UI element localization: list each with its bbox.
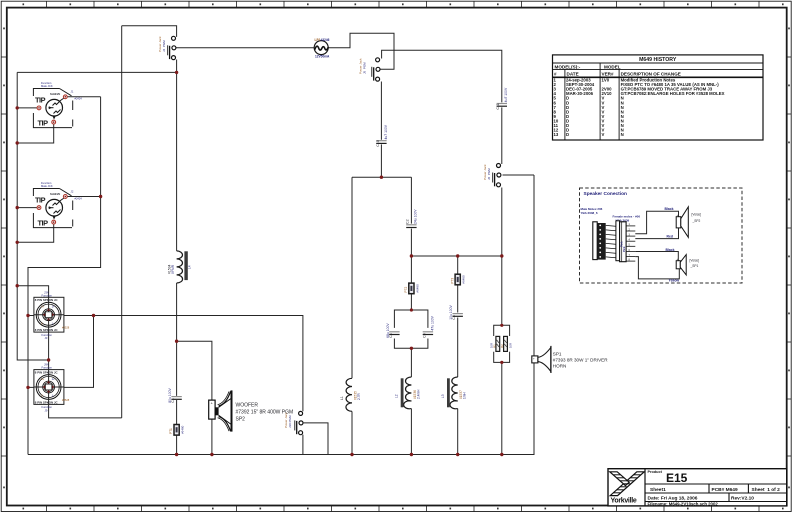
- junction node: [16, 141, 19, 144]
- svg-text:YBA 2638_6: YBA 2638_6: [581, 211, 598, 215]
- capacitor C2: [406, 209, 418, 228]
- svg-text:MODEL(S):-: MODEL(S):-: [555, 65, 581, 70]
- wire cap pair box C4 C5: [394, 310, 428, 328]
- svg-text:Function: Function: [42, 366, 53, 370]
- svg-text:Yorkville: Yorkville: [611, 498, 637, 505]
- junction node: [380, 176, 383, 179]
- wire crossover top rail: [352, 176, 411, 178]
- wire R box bottom: [494, 352, 510, 363]
- wire PT1 to bottom bus: [176, 433, 178, 455]
- svg-text:10R: 10R: [509, 343, 513, 348]
- svg-text:J1: J1: [71, 90, 74, 94]
- wire J5 top stub: [382, 50, 502, 102]
- svg-text:TIP: TIP: [38, 119, 49, 128]
- svg-text:#2424: #2424: [75, 197, 83, 201]
- wire cap pair box bottom: [394, 339, 428, 349]
- wire cap box to L2: [410, 348, 412, 377]
- svg-text:[Voice]: [Voice]: [690, 258, 700, 262]
- junction node: [500, 361, 503, 364]
- TIP jack J1: [33, 81, 82, 127]
- junction node: [16, 284, 19, 287]
- wire woofer bottom to bus: [211, 420, 213, 455]
- svg-text:Product: Product: [648, 470, 663, 474]
- lamp LP1: [314, 38, 330, 59]
- wire J2 tip pin to vertical x100.6: [67, 196, 101, 198]
- svg-text:C11: C11: [496, 103, 500, 109]
- svg-text:M649 HISTORY: M649 HISTORY: [639, 57, 677, 63]
- junction node: [26, 386, 29, 389]
- history table: [553, 55, 764, 140]
- jack J10: [284, 411, 303, 434]
- wire J1 tip pin to vertical x100.6: [67, 96, 101, 98]
- junction node: [410, 254, 413, 257]
- woofer SP2: [209, 390, 293, 431]
- svg-text:47u 100V: 47u 100V: [430, 315, 434, 330]
- TIP jack J2: [33, 181, 82, 227]
- molex male connector: [593, 222, 597, 260]
- wire speakon line to woofer jack J10: [28, 316, 303, 412]
- wire sleeve return to left bus: [17, 71, 176, 73]
- inductor L1: [340, 378, 361, 411]
- svg-text:80u 100V: 80u 100V: [168, 387, 172, 402]
- wire speakon J3 bottom to speakon J9 top: [48, 332, 50, 370]
- capacitor C5: [422, 315, 434, 338]
- wire speakon J9 bottom to x122 return: [49, 405, 122, 418]
- molex female connector: [616, 221, 620, 261]
- svg-text:Speaker Conection: Speaker Conection: [584, 191, 628, 197]
- svg-text:2.4mH: 2.4mH: [416, 389, 420, 399]
- svg-text:E15: E15: [666, 471, 688, 485]
- wire bus to speakon J3 top: [17, 286, 48, 298]
- svg-text:1V0: 1V0: [602, 78, 610, 83]
- svg-text:Yellow: Yellow: [669, 279, 680, 283]
- wire J1 sleeve pin down to bus: [17, 124, 54, 143]
- wire J10 middle to bus: [304, 423, 328, 455]
- svg-text:SLEEVE: SLEEVE: [50, 192, 61, 196]
- wire C8 to L3: [457, 318, 459, 378]
- svg-text:PCB# M649: PCB# M649: [712, 487, 738, 493]
- svg-text:Sheet 1 of 2: Sheet 1 of 2: [752, 487, 781, 493]
- jack J5: [359, 58, 381, 81]
- wire lamp LP1 to J5 middle: [328, 33, 394, 69]
- junction node: [26, 314, 29, 317]
- svg-text:DESCRIPTION OF CHANGE: DESCRIPTION OF CHANGE: [621, 72, 681, 77]
- svg-text:XFMR: XFMR: [171, 264, 175, 274]
- svg-text:C10: C10: [376, 140, 380, 147]
- title block: [608, 469, 787, 507]
- svg-text:Filename: M649-2V10sch.sch 200: Filename: M649-2V10sch.sch 2002: [648, 501, 719, 506]
- svg-text:Sheet1: Sheet1: [650, 487, 666, 493]
- junction node: [175, 453, 178, 456]
- Yorkville logo: [610, 472, 644, 505]
- junction node: [16, 241, 19, 244]
- junction node: [175, 71, 178, 74]
- svg-text:#6480: #6480: [462, 275, 466, 284]
- wire L3 to bus: [457, 409, 459, 455]
- svg-text:J5 PGM: J5 PGM: [363, 62, 367, 74]
- svg-text:Male JCK: Male JCK: [41, 184, 53, 188]
- svg-text:R2: R2: [500, 344, 504, 348]
- svg-text:#3528: #3528: [62, 398, 70, 402]
- svg-text:J3: J3: [45, 336, 48, 340]
- svg-text:#3528: #3528: [62, 326, 70, 330]
- svg-text:4u7 100V: 4u7 100V: [504, 87, 508, 102]
- molex pin wires: [606, 225, 617, 258]
- svg-text:N: N: [621, 132, 624, 137]
- svg-text:+: +: [677, 257, 679, 261]
- junction node: [210, 453, 213, 456]
- wire left bus vertical: [17, 72, 48, 360]
- wire J6 middle to horn line: [503, 174, 535, 176]
- svg-text:68u 100V: 68u 100V: [386, 323, 390, 338]
- svg-text:MODEL: MODEL: [604, 65, 621, 70]
- svg-text:_SP1: _SP1: [690, 264, 699, 268]
- wire top loop from J4 tip to bus x122: [122, 26, 177, 37]
- junction node: [16, 106, 19, 109]
- resistor R2: [500, 336, 512, 351]
- junction node: [92, 314, 95, 317]
- wire C2 branch: [410, 177, 412, 223]
- svg-text:TIP: TIP: [35, 195, 46, 204]
- svg-text:2.7R: 2.7R: [357, 393, 361, 400]
- wire J2 sleeve pin down to bus: [17, 224, 54, 243]
- svg-text:PT1: PT1: [169, 428, 173, 434]
- svg-text:GT:PCB7082:ENLARGE HOLES FOR #: GT:PCB7082:ENLARGE HOLES FOR #3528 MOLEX: [621, 91, 725, 96]
- svg-text:J2: J2: [71, 190, 74, 194]
- capacitor C10: [376, 124, 388, 147]
- svg-text:[Voice]: [Voice]: [692, 213, 702, 217]
- svg-text:TIP: TIP: [35, 95, 46, 104]
- junction node: [410, 453, 413, 456]
- wire J2 left pin to bus: [17, 207, 37, 209]
- speaker connection detail box: [580, 188, 743, 283]
- svg-text:L2: L2: [395, 394, 399, 398]
- svg-text:Red: Red: [667, 234, 673, 238]
- wires to SP2 speaker: [635, 211, 679, 279]
- resistor R1: [490, 336, 500, 351]
- svg-text:WOOFER: WOOFER: [236, 402, 259, 408]
- speakon connector J3: [34, 290, 70, 340]
- junction node: [175, 340, 178, 343]
- wire J1 left pin to bus: [17, 107, 37, 109]
- junction node: [99, 195, 102, 198]
- wire L2 to bus: [410, 409, 412, 455]
- svg-text:Function: Function: [42, 293, 53, 297]
- wire mid rail to PT2: [410, 256, 412, 283]
- svg-text:+: +: [677, 213, 679, 217]
- wire PT3 to C8: [457, 285, 459, 313]
- svg-text:DATE: DATE: [567, 72, 579, 77]
- svg-text:V: V: [602, 132, 605, 137]
- svg-text:13: 13: [554, 132, 559, 137]
- junction node: [500, 453, 503, 456]
- inductor L3: [441, 377, 467, 409]
- polyswitch PT2: [404, 283, 419, 294]
- wire mid rail: [411, 255, 501, 257]
- wire C2 to mid rail: [410, 229, 412, 256]
- capacitor C11: [496, 87, 508, 110]
- wire L4 to C1: [176, 283, 178, 396]
- junction node: [500, 254, 503, 257]
- svg-text:10R: 10R: [490, 343, 494, 348]
- svg-text:#7393 8R 30W 1" DRIVER: #7393 8R 30W 1" DRIVER: [553, 358, 608, 363]
- speaker SP2 in box: [676, 217, 681, 228]
- wire C10 to crossover input: [380, 144, 382, 177]
- jack J4: [158, 36, 176, 60]
- svg-text:Black: Black: [665, 207, 674, 211]
- wire L1 to bus: [351, 411, 353, 454]
- svg-text:J6 PGM: J6 PGM: [487, 168, 491, 180]
- svg-text:Rev:V2.10: Rev:V2.10: [731, 496, 754, 502]
- junction node: [410, 347, 413, 350]
- svg-text:PT3: PT3: [450, 278, 454, 284]
- svg-text:SP1: SP1: [553, 352, 562, 357]
- svg-text:SP2: SP2: [236, 416, 246, 422]
- svg-text:12V50mA: 12V50mA: [315, 55, 330, 59]
- wire bottom bus: [28, 175, 534, 455]
- svg-text:MAR-30-2006: MAR-30-2006: [566, 91, 594, 96]
- wire R box to bus: [501, 362, 503, 454]
- svg-text:TIP: TIP: [38, 219, 49, 228]
- inductor L2: [395, 377, 421, 409]
- horn SP1: [532, 346, 608, 373]
- svg-text:HORN: HORN: [553, 364, 567, 369]
- wire R1 R2 box: [494, 325, 510, 336]
- svg-text:Male JCK: Male JCK: [41, 84, 53, 88]
- wire speakon J9 line to x93.5 vertical: [28, 316, 94, 388]
- polyswitch PT1: [169, 425, 184, 436]
- wire J4 middle to lamp LP1: [176, 47, 314, 49]
- svg-text:SLEEVE: SLEEVE: [50, 92, 61, 96]
- wire J5 sleeve to C10: [380, 82, 382, 140]
- inductor L4: [167, 251, 191, 283]
- junction node: [500, 324, 503, 327]
- svg-text:Black: Black: [666, 248, 675, 252]
- polyswitch PT3: [450, 274, 465, 285]
- svg-text:4u7 100V: 4u7 100V: [384, 124, 388, 139]
- wire mid rail to PT3: [457, 256, 459, 274]
- junction node: [350, 453, 353, 456]
- junction node: [410, 308, 413, 311]
- svg-text:#3246: #3246: [321, 38, 330, 42]
- wire PT2 to cap pair box: [410, 294, 412, 310]
- capacitor C1: [168, 387, 182, 402]
- junction node: [16, 206, 19, 209]
- svg-text:Pink: Pink: [620, 241, 624, 247]
- svg-text:J10 PGM: J10 PGM: [288, 415, 292, 428]
- svg-text:10u 100V: 10u 100V: [449, 304, 453, 319]
- wire J10 sleeve to bus: [302, 435, 304, 455]
- speaker SP1 in box: [676, 261, 680, 269]
- svg-text:L4: L4: [188, 265, 192, 269]
- wire vertical x100.6: [28, 97, 101, 455]
- svg-text:C5: C5: [422, 333, 426, 338]
- wire L1 branch top: [351, 177, 353, 378]
- junction node: [456, 254, 459, 257]
- wire J4 sleeve down to L4 branch: [176, 60, 178, 251]
- svg-text:#: #: [554, 72, 557, 77]
- svg-text:J9: J9: [45, 408, 48, 412]
- svg-text:1mH: 1mH: [463, 392, 467, 399]
- wire x122 return vertical: [121, 26, 123, 418]
- speakon connector J9: [34, 363, 70, 413]
- svg-text:PT2: PT2: [404, 287, 408, 293]
- capacitor C4: [386, 323, 400, 338]
- svg-text:_SP2: _SP2: [692, 219, 701, 223]
- junction node: [47, 358, 50, 361]
- svg-text:#2424: #2424: [75, 97, 83, 101]
- svg-text:24u 100V: 24u 100V: [413, 209, 417, 224]
- svg-text:VER#: VER#: [602, 72, 614, 77]
- svg-text:C2: C2: [406, 219, 410, 224]
- wire C1 to PT1: [176, 400, 178, 427]
- svg-text:L3: L3: [441, 394, 445, 398]
- svg-text:#7392 15" 8R 400W PGM: #7392 15" 8R 400W PGM: [236, 409, 294, 415]
- svg-text:J4 PGM: J4 PGM: [162, 40, 166, 52]
- svg-text:#6480: #6480: [415, 284, 419, 293]
- junction node: [456, 453, 459, 456]
- svg-text:L1: L1: [340, 396, 344, 400]
- svg-text:D: D: [566, 132, 569, 137]
- svg-text:#6480: #6480: [181, 425, 185, 434]
- wire woofer branch: [177, 341, 212, 400]
- capacitor C8: [449, 304, 463, 319]
- wire J6 sleeve down to R junction: [501, 188, 503, 326]
- wire C11 to J6: [501, 107, 503, 164]
- svg-text:Pink: Pink: [622, 246, 626, 252]
- jack J6: [483, 164, 501, 187]
